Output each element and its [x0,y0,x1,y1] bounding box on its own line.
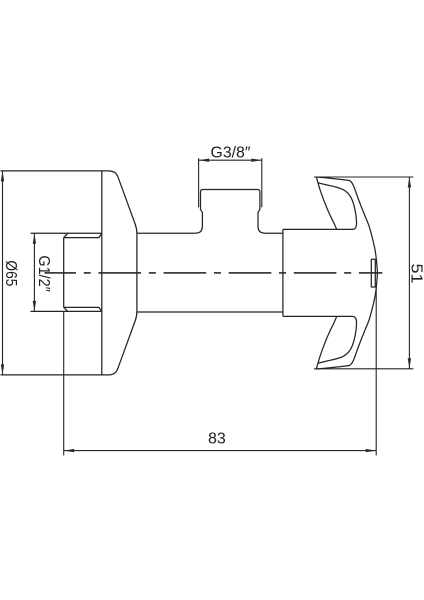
hub top edge and upper blade inner panel line [283,183,357,230]
valve body barrel bottom edge [137,311,283,313]
wall flange outline (bell-shaped escutcheon) with O65 extension lines [1,171,137,375]
centerline (horizontal axis, dash-dot) [45,272,383,274]
G3/8 threaded port outline [195,190,265,234]
dimension line 51 [408,177,410,369]
extension line 83 right [375,287,377,455]
valve body barrel top edge (left of port) [137,232,196,234]
handle outline: top tip edge, outer arc, bottom tip edge, lower blade left edge [316,177,377,369]
upper blade left edge [316,177,336,229]
handle hub left edge [282,229,284,316]
nut G1/2 bottom edge (with extension line) [31,310,102,312]
svg-text:83: 83 [208,430,226,447]
dimension line G1/2 [33,233,35,311]
nut bottom chamfer [64,307,102,311]
G3/8 extension line left / thread line [198,158,200,207]
extension line 83 left [63,311,65,455]
hub bottom edge and lower blade inner panel line [283,316,357,363]
flange face edge [101,171,103,375]
svg-text:Ø65: Ø65 [2,260,19,286]
svg-text:G3/8″: G3/8″ [211,144,251,161]
dimension line G3/8 [199,159,262,161]
svg-text:G1/2″: G1/2″ [35,255,52,292]
dimension line O65 [2,171,4,375]
G3/8 extension line right / thread line [261,158,263,207]
svg-text:51: 51 [408,264,424,284]
valve body barrel top edge (right of port) [265,232,283,234]
nut top chamfer [64,233,102,237]
extension line 51 top [314,176,413,178]
nut G1/2 top edge (with extension line) [31,232,102,234]
nut left face [63,238,65,308]
arrowheads [1,171,4,182]
dimension line 83 [64,450,377,452]
handle cap (front spoke seen end-on) [371,259,375,287]
extension line 51 bottom [314,368,413,370]
